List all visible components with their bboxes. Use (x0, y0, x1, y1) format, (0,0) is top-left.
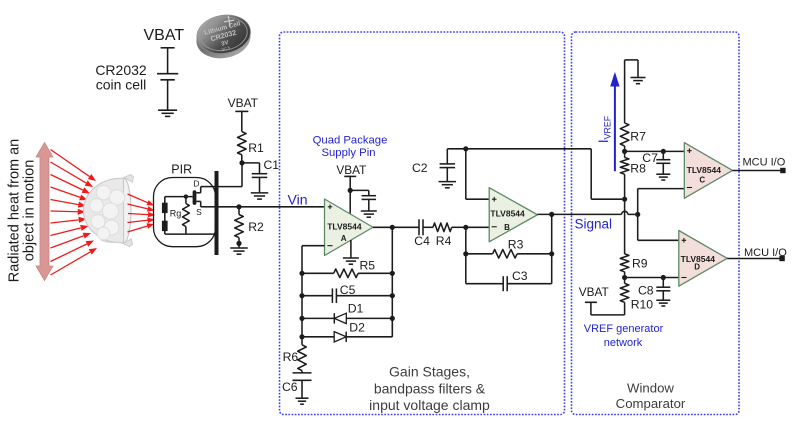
op-amp U1A (325, 199, 374, 256)
svg-text:network: network (604, 337, 643, 349)
svg-text:Radiated heat from an: Radiated heat from an (7, 139, 23, 282)
wire (to D minus) (625, 277, 679, 279)
label R9 (632, 257, 648, 271)
svg-text:PIR: PIR (171, 163, 192, 177)
wire Vin (219, 206, 325, 208)
wire (signal to C minus) (638, 189, 685, 215)
caption: window comparator (616, 381, 686, 412)
label VBAT (R1) (228, 96, 259, 110)
PIR pin bus (215, 171, 219, 255)
svg-text:C5: C5 (340, 283, 356, 297)
svg-text:VBAT: VBAT (228, 96, 259, 110)
ground (R2) (230, 243, 248, 254)
capacitor C5 (302, 288, 392, 303)
resistor R2 (235, 207, 244, 244)
label PIR (171, 163, 192, 177)
resistor R1 (238, 111, 247, 162)
svg-text:R4: R4 (436, 234, 452, 248)
transistor Q1 (PIR FET) (193, 187, 215, 207)
ground (below A) (343, 240, 359, 264)
radiated heat rays (51, 150, 98, 276)
fresnel lens (84, 175, 134, 247)
minus input (A) (327, 245, 332, 247)
label R6 (283, 350, 299, 364)
svg-text:TLV8544: TLV8544 (327, 222, 362, 232)
label TLV8544 B (490, 208, 525, 232)
label R10 (631, 298, 654, 312)
node Signal (635, 212, 640, 217)
wire (B output) (551, 214, 553, 253)
svg-text:C6: C6 (282, 380, 298, 394)
caption: gain stages / bandpass filters / input voltage clamp (369, 364, 490, 414)
svg-text:S: S (196, 207, 202, 217)
node (R3 right) (549, 251, 554, 256)
capacitor C3 (466, 254, 552, 291)
label I_VREF (596, 115, 612, 143)
label S (source) (196, 207, 202, 217)
ground (C1) (251, 193, 269, 199)
ground (A bypass) (361, 211, 377, 217)
node (B plus net) (463, 146, 468, 151)
label R5 (360, 258, 376, 272)
svg-text:TLV8544: TLV8544 (490, 208, 525, 218)
svg-text:C3: C3 (512, 269, 528, 283)
svg-text:Signal: Signal (575, 217, 613, 232)
PIR package outline (154, 178, 216, 247)
pyroelectric element (162, 197, 168, 235)
svg-text:IVREF: IVREF (596, 115, 612, 143)
svg-text:R8: R8 (630, 162, 646, 176)
label VBAT (R10) (579, 285, 609, 299)
node (C7 tap) (661, 149, 666, 154)
svg-text:Quad Package: Quad Package (313, 134, 388, 146)
resistor R5 (302, 269, 392, 278)
svg-text:VBAT: VBAT (336, 163, 366, 177)
wire (element bottom to bus) (165, 233, 215, 235)
coin cell photo (193, 11, 255, 63)
svg-text:A: A (341, 234, 347, 243)
capacitor C2 (440, 149, 456, 182)
bypass capacitor (A supply) (350, 190, 376, 210)
svg-text:VBAT: VBAT (579, 285, 609, 299)
ground (C7) (656, 174, 670, 180)
resistor R6 (298, 345, 307, 373)
label MCU I/O (C) (743, 157, 786, 169)
wire (feedback right vertical) (391, 227, 393, 336)
dashed box: gain stages (280, 32, 565, 415)
label C5 (340, 283, 356, 297)
resistor R9 (620, 254, 629, 278)
node (left R5) (299, 271, 304, 276)
wire (A output) (373, 226, 419, 228)
svg-text:R5: R5 (360, 258, 376, 272)
node (R8 bottom) (622, 197, 627, 202)
svg-text:Supply Pin: Supply Pin (321, 147, 375, 159)
svg-text:D: D (193, 178, 199, 188)
wire (A supply) (349, 176, 351, 213)
capacitor C8 (656, 278, 670, 301)
plus input (C) (687, 148, 692, 153)
wire (D output) (727, 258, 780, 260)
node (C8 tap) (661, 275, 666, 280)
diode D2 (302, 318, 392, 342)
op-amp U1D (679, 231, 727, 287)
plus input (B) (492, 197, 497, 202)
node (B output) (549, 212, 554, 217)
label R2 (248, 220, 264, 234)
svg-text:Rg: Rg (170, 209, 182, 219)
capacitor C6 (293, 373, 312, 398)
MCU I/O pad (C) (780, 168, 785, 173)
wire (to B minus) (466, 226, 489, 228)
svg-text:C8: C8 (638, 283, 654, 297)
plus input (D) (682, 238, 687, 243)
svg-text:Comparator: Comparator (616, 396, 686, 411)
label D2 (349, 321, 365, 335)
label TLV8544 D (681, 254, 716, 271)
label R7 (630, 130, 646, 144)
resistor R10 (620, 278, 629, 315)
minus input (B) (492, 226, 497, 228)
svg-text:R9: R9 (632, 257, 648, 271)
VBAT terminal (R1) (235, 110, 248, 112)
svg-text:coin cell: coin cell (96, 77, 147, 93)
wire (signal to D plus) (638, 214, 679, 240)
label C2 (412, 161, 428, 175)
capacitor C7 (656, 151, 670, 174)
node (A supply) (348, 188, 353, 193)
svg-text:bandpass filters &: bandpass filters & (374, 381, 486, 397)
svg-text:R6: R6 (283, 350, 299, 364)
wire Signal (538, 211, 638, 214)
node (Vin/R2) (236, 204, 241, 209)
node (left D1) (299, 316, 304, 321)
node (R9/R10) (622, 275, 627, 280)
wire (R10 to VBAT) (591, 302, 625, 315)
resistor R4 (433, 223, 466, 232)
svg-text:MCU I/O: MCU I/O (744, 247, 787, 259)
node (R7/R8) (622, 149, 627, 154)
label R3 (508, 238, 524, 252)
label C3 (512, 269, 528, 283)
label C1 (264, 158, 280, 172)
motion double-headed arrow (36, 143, 53, 281)
capacitor C1 (242, 163, 267, 193)
label C8 (638, 283, 654, 297)
label C4 (414, 234, 430, 248)
label VBAT (op-amp A) (336, 163, 366, 177)
ground (VREF chain top) (631, 78, 646, 84)
wire (element top to gate) (165, 194, 193, 198)
node (R2 bottom) (236, 241, 241, 246)
minus input (C) (687, 187, 692, 189)
label R8 (630, 162, 646, 176)
label Rg (170, 209, 182, 219)
node (A output) (390, 225, 395, 230)
label TLV8544 C (687, 165, 722, 185)
VBAT terminal (op-amp A) (344, 175, 356, 177)
node (R3 left) (463, 251, 468, 256)
label MCU I/O (D) (744, 247, 787, 259)
diode D1 (302, 313, 392, 323)
node (left D2) (299, 334, 304, 339)
label Vin (288, 192, 308, 208)
label Quad Package Supply Pin (313, 134, 388, 159)
svg-text:input voltage clamp: input voltage clamp (369, 397, 490, 413)
VBAT terminal (R10) (585, 301, 597, 303)
svg-text:TLV8544: TLV8544 (687, 165, 722, 175)
svg-text:R10: R10 (631, 298, 654, 312)
node (right D1) (390, 316, 395, 321)
label Signal (575, 217, 613, 232)
minus input (D) (681, 277, 686, 279)
resistor R7 (620, 123, 629, 151)
label R1 (248, 141, 264, 155)
label C6 (282, 380, 298, 394)
wire (to C plus) (625, 150, 685, 152)
wire (C2 to B plus) (447, 149, 622, 199)
label C7 (642, 151, 658, 165)
svg-text:R2: R2 (248, 220, 264, 234)
wire (chain top to ground) (625, 60, 638, 123)
ground (C6) (296, 398, 309, 404)
label: radiated heat from an object in motion (7, 139, 38, 282)
wire (chain middle) (624, 199, 626, 254)
svg-text:C1: C1 (264, 158, 280, 172)
label D (drain) (193, 178, 199, 188)
svg-text:D1: D1 (348, 301, 364, 315)
svg-text:R1: R1 (248, 141, 264, 155)
node (right C5) (390, 293, 395, 298)
dashed box: window comparator (572, 32, 740, 415)
svg-text:B: B (504, 223, 510, 232)
svg-text:C4: C4 (414, 234, 430, 248)
focused heat rays (128, 194, 156, 232)
resistor R8 (620, 151, 629, 199)
svg-text:VBAT: VBAT (143, 27, 184, 44)
svg-text:VREF generator: VREF generator (584, 323, 664, 335)
resistor Rg (183, 197, 190, 235)
wire (C output) (733, 170, 782, 172)
label CR2032 coin cell (95, 62, 147, 93)
svg-text:C2: C2 (412, 161, 428, 175)
label TLV8544 A (327, 222, 362, 244)
svg-text:R3: R3 (508, 238, 524, 252)
battery B1 CR2032 symbol (157, 48, 178, 110)
node (R1/C1) (239, 160, 244, 165)
svg-text:C: C (699, 176, 705, 185)
resistor R3 (466, 227, 552, 258)
wire (drain row) (219, 163, 243, 187)
svg-text:Window: Window (627, 381, 674, 396)
label VREF generator network (584, 323, 664, 349)
svg-text:object in motion: object in motion (22, 160, 38, 262)
svg-text:D: D (694, 262, 700, 271)
label VBAT (battery) (143, 27, 184, 44)
svg-text:R7: R7 (630, 130, 646, 144)
MCU I/O pad (D) (779, 256, 784, 261)
I_VREF arrow (610, 72, 619, 171)
plus input (A) (328, 205, 333, 210)
ground (C2) (439, 182, 457, 188)
ground (C8) (656, 300, 670, 306)
svg-text:MCU I/O: MCU I/O (743, 157, 786, 169)
node (left C5) (299, 293, 304, 298)
ground (battery) (158, 110, 177, 116)
node (right R5) (390, 271, 395, 276)
svg-text:Vin: Vin (288, 192, 308, 208)
node (B minus) (463, 225, 468, 230)
label R4 (436, 234, 452, 248)
op-amp U1C (684, 143, 732, 199)
svg-text:D2: D2 (349, 321, 365, 335)
capacitor C4 (419, 219, 433, 235)
label D1 (348, 301, 364, 315)
op-amp U1B (489, 188, 537, 242)
wire (A minus feedback) (302, 246, 325, 345)
svg-text:Gain Stages,: Gain Stages, (389, 364, 470, 380)
